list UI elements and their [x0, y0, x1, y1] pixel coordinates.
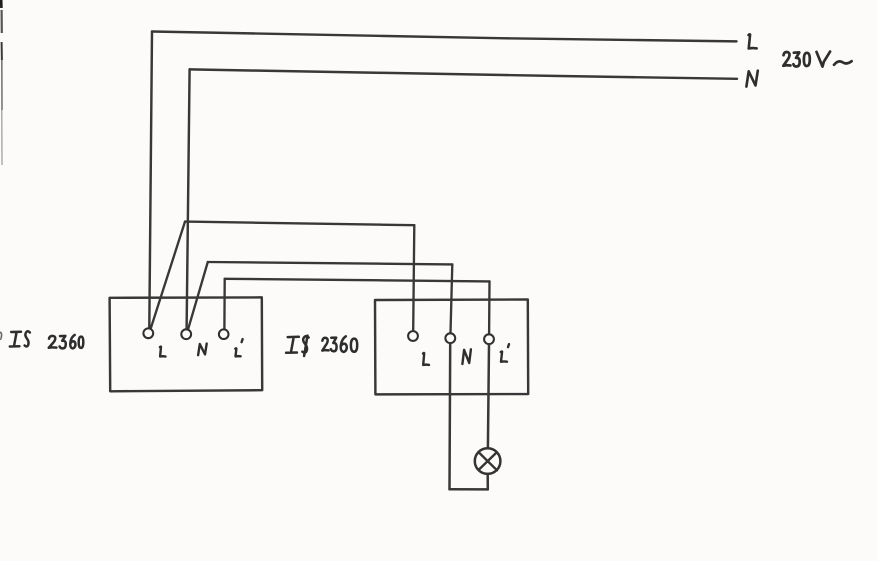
wire mains N horizontal	[190, 69, 737, 78]
sensor box U1 (left IS 2360) outline	[110, 297, 263, 391]
wire Lp-link vertical drop to right terminal L'	[488, 281, 491, 334]
wire N-link diagonal from left terminal N	[188, 262, 208, 330]
wire N-link vertical drop to right terminal N	[451, 264, 453, 333]
label U1 'IS 2360'	[10, 331, 84, 348]
wire L-link horizontal	[185, 222, 414, 226]
terminal circle U2 L'	[484, 334, 494, 344]
wire mains N vertical drop	[187, 69, 190, 329]
wire L-link diagonal from left terminal L	[151, 222, 185, 328]
scan artifact left edge mark mid	[0, 332, 2, 339]
wire U2 L' terminal down to lamp	[488, 344, 489, 448]
label U2 terminal L	[423, 353, 429, 365]
terminal circle U1 N	[181, 329, 191, 339]
label U1 terminal L	[160, 347, 166, 357]
label mains N	[746, 71, 757, 87]
wire U2 N terminal down	[448, 343, 451, 489]
label U1 terminal N	[198, 344, 207, 356]
label U1 terminal L'	[235, 339, 242, 356]
wire Lp-link horizontal	[225, 279, 490, 282]
terminal circle U1 L'	[219, 329, 229, 339]
terminal circle U2 N	[445, 333, 455, 343]
wire lamp bottom vertical	[486, 474, 489, 489]
wire Lp-link vertical from left terminal L'	[223, 279, 226, 329]
label U2 'IS 2360'	[286, 336, 357, 356]
wire N-link horizontal	[208, 262, 452, 264]
lamp E1 circle	[475, 448, 501, 474]
terminal circle U2 L	[408, 331, 418, 341]
wire lamp bottom horizontal	[450, 488, 488, 491]
wire L-link vertical drop to right terminal L	[413, 225, 414, 331]
label U2 terminal N	[462, 349, 471, 364]
sensor box U2 (right IS 2360) outline	[375, 300, 528, 395]
terminal circle U1 L	[143, 328, 153, 338]
label U2 terminal L'	[501, 344, 509, 362]
lamp E1 cross	[478, 452, 497, 470]
label 230V~	[783, 52, 851, 67]
label mains L	[749, 34, 757, 48]
wire mains L horizontal	[152, 32, 737, 42]
wire mains L vertical drop	[149, 32, 152, 328]
scan artifact left edge	[0, 0, 3, 8]
